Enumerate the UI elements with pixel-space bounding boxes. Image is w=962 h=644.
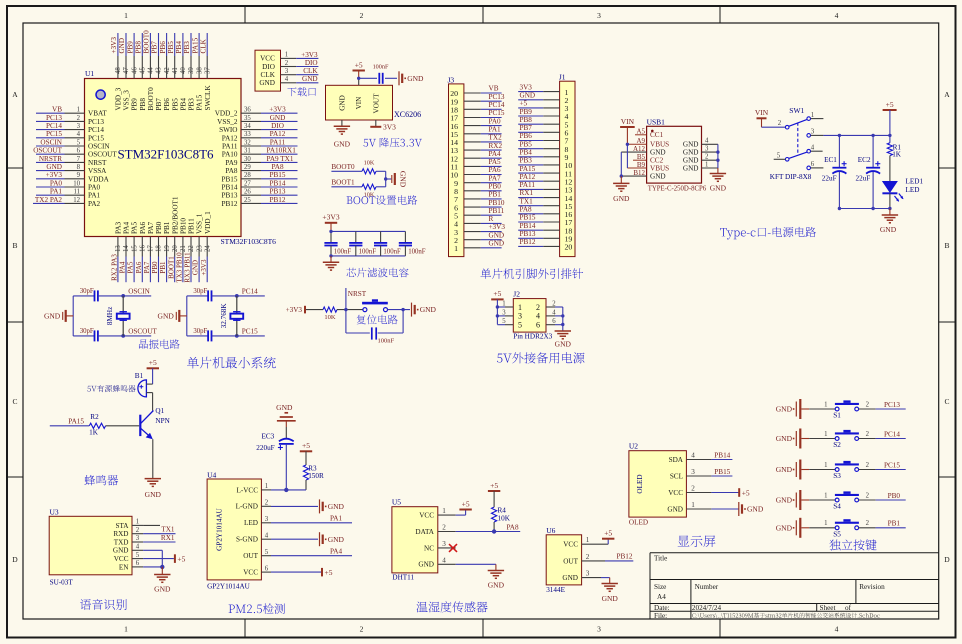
J2 pin 3 bbox=[497, 315, 505, 317]
svg-text:VCC: VCC bbox=[243, 569, 258, 577]
wire net PA11 bbox=[518, 188, 543, 190]
svg-text:25: 25 bbox=[244, 197, 251, 204]
svg-text:+5: +5 bbox=[302, 441, 310, 450]
wire net PC15 bbox=[36, 137, 65, 139]
svg-text:1: 1 bbox=[824, 431, 827, 438]
svg-text:VSS_2: VSS_2 bbox=[217, 118, 238, 126]
mcu pin 46 PB9 bbox=[133, 56, 135, 79]
wire net +3V3 bbox=[261, 112, 298, 114]
svg-text:PB5: PB5 bbox=[171, 98, 179, 111]
svg-text:46: 46 bbox=[131, 67, 138, 74]
svg-text:DIO: DIO bbox=[262, 63, 275, 71]
label 5V buck 3.3V bbox=[363, 138, 421, 148]
wire net DIO bbox=[261, 129, 298, 131]
svg-text:PA4: PA4 bbox=[123, 221, 131, 234]
wire net PA10RX1 bbox=[261, 153, 298, 155]
wire net TX2 bbox=[481, 141, 502, 143]
resistor R3 150R bbox=[303, 465, 308, 480]
svg-text:PB5: PB5 bbox=[520, 140, 533, 148]
button S4 bbox=[835, 498, 839, 502]
mcu pin 34 SWIO bbox=[241, 129, 261, 131]
svg-text:PA6: PA6 bbox=[135, 261, 143, 273]
svg-text:PB14: PB14 bbox=[270, 179, 286, 187]
svg-text:PB14: PB14 bbox=[714, 451, 730, 459]
wire node PC14 bbox=[237, 295, 265, 297]
svg-text:VCC: VCC bbox=[419, 512, 434, 520]
svg-text:VSS_3: VSS_3 bbox=[123, 90, 131, 111]
wire VCC +5 U2 bbox=[686, 492, 711, 494]
svg-text:2: 2 bbox=[866, 492, 870, 499]
svg-text:PA3: PA3 bbox=[115, 221, 123, 234]
svg-text:VDD_1: VDD_1 bbox=[204, 211, 212, 234]
svg-text:3: 3 bbox=[502, 309, 506, 316]
svg-text:16: 16 bbox=[139, 245, 146, 252]
wire net PB12 bbox=[518, 245, 543, 247]
svg-text:L-GND: L-GND bbox=[236, 503, 258, 511]
wire gnd bus J2 bbox=[562, 307, 564, 331]
svg-text:PA11: PA11 bbox=[520, 181, 536, 189]
svg-text:PB11: PB11 bbox=[188, 218, 196, 234]
svg-text:1: 1 bbox=[824, 462, 827, 469]
wire net CLK bbox=[206, 33, 208, 56]
svg-text:4: 4 bbox=[536, 312, 540, 321]
svg-text:PB4: PB4 bbox=[179, 98, 187, 111]
wire net PA12 bbox=[518, 180, 543, 182]
svg-text:GND: GND bbox=[338, 95, 346, 111]
svg-text:PB0: PB0 bbox=[155, 221, 163, 234]
wire net PB8 bbox=[141, 33, 143, 56]
wire net PA7 bbox=[149, 257, 151, 283]
svg-text:PC15: PC15 bbox=[46, 130, 62, 138]
svg-text:1: 1 bbox=[285, 52, 288, 59]
mcu pin 10 PA0 bbox=[65, 186, 85, 188]
svg-text:3: 3 bbox=[811, 129, 815, 136]
svg-text:4: 4 bbox=[265, 533, 269, 540]
svg-text:1: 1 bbox=[502, 301, 505, 308]
svg-text:U1: U1 bbox=[85, 69, 94, 78]
svg-text:12: 12 bbox=[73, 197, 80, 204]
svg-text:OLED: OLED bbox=[636, 474, 644, 493]
svg-text:19: 19 bbox=[164, 245, 171, 252]
svg-text:21: 21 bbox=[180, 245, 187, 252]
svg-text:44: 44 bbox=[148, 67, 155, 74]
svg-text:PA4: PA4 bbox=[489, 150, 502, 158]
svg-text:DIO: DIO bbox=[305, 59, 318, 67]
svg-text:PA7: PA7 bbox=[143, 261, 151, 273]
svg-text:4: 4 bbox=[835, 625, 839, 634]
wire VCC +5 bbox=[143, 558, 174, 560]
wire S1 net PC13 bbox=[859, 408, 876, 410]
svg-text:6: 6 bbox=[77, 148, 81, 155]
mcu pin 12 PA2 bbox=[65, 202, 85, 204]
mcu pin 39 PB3 bbox=[190, 56, 192, 79]
wire S2 net PC14 bbox=[859, 438, 876, 440]
svg-text:GND: GND bbox=[650, 149, 666, 157]
svg-text:100nF: 100nF bbox=[378, 337, 395, 344]
svg-text:PB14: PB14 bbox=[520, 222, 536, 230]
wire net R bbox=[481, 222, 502, 224]
svg-text:+3V3: +3V3 bbox=[269, 106, 286, 114]
svg-text:PA15: PA15 bbox=[68, 418, 84, 426]
power port +5 bbox=[353, 70, 365, 72]
wire net PC13 bbox=[36, 120, 65, 122]
svg-text:GND: GND bbox=[407, 74, 424, 83]
wire net PB11 bbox=[481, 214, 502, 216]
svg-text:PC13: PC13 bbox=[88, 118, 104, 126]
svg-text:S4: S4 bbox=[833, 503, 841, 511]
svg-text:6: 6 bbox=[536, 321, 540, 330]
wire net PB14 bbox=[518, 229, 543, 231]
svg-text:GND: GND bbox=[667, 505, 683, 513]
svg-text:PA12: PA12 bbox=[520, 173, 536, 181]
capacitor 100nF filter 3 bbox=[380, 231, 382, 243]
svg-text:+5: +5 bbox=[462, 499, 470, 508]
svg-text:GND: GND bbox=[555, 340, 572, 349]
svg-text:VCC: VCC bbox=[668, 489, 683, 497]
svg-text:3: 3 bbox=[77, 123, 81, 130]
mcu pin 6 OSCOUT bbox=[65, 153, 85, 155]
crystal 8MHz bbox=[122, 296, 124, 336]
wire VIN to CC-A9 bbox=[626, 127, 628, 144]
svg-text:4: 4 bbox=[705, 138, 709, 145]
wire L-VCC bbox=[271, 489, 306, 491]
svg-text:2: 2 bbox=[552, 301, 556, 308]
svg-text:4: 4 bbox=[835, 11, 839, 20]
svg-text:5: 5 bbox=[265, 549, 269, 556]
wire GND U6 bbox=[582, 577, 601, 579]
label BOOT config bbox=[347, 195, 418, 205]
svg-text:J2: J2 bbox=[513, 290, 520, 299]
svg-text:U6: U6 bbox=[546, 526, 555, 535]
svg-text:VB: VB bbox=[489, 85, 499, 93]
svg-text:29: 29 bbox=[244, 164, 251, 171]
wire DATA net PA8 bbox=[456, 531, 521, 533]
wire GND U2 bbox=[686, 508, 711, 510]
svg-text:4: 4 bbox=[811, 144, 815, 151]
svg-text:Title: Title bbox=[654, 555, 667, 563]
ground port crystal bbox=[180, 315, 187, 317]
svg-text:LED: LED bbox=[244, 519, 258, 527]
svg-text:4: 4 bbox=[136, 544, 140, 551]
mcu pin 20 PB2/BOOT1 bbox=[174, 237, 176, 257]
svg-text:SW1: SW1 bbox=[789, 106, 804, 115]
svg-text:2: 2 bbox=[586, 553, 590, 561]
svg-text:32: 32 bbox=[244, 139, 251, 146]
mcu pin 4 PC15 bbox=[65, 137, 85, 139]
svg-text:OSCOUT: OSCOUT bbox=[88, 151, 117, 159]
svg-text:2: 2 bbox=[442, 524, 446, 532]
svg-text:PB9: PB9 bbox=[520, 108, 533, 116]
wire S-GND bbox=[271, 538, 318, 540]
wire net PB7 bbox=[158, 33, 160, 56]
svg-text:PA15: PA15 bbox=[196, 94, 204, 110]
power port VIN usb bbox=[620, 126, 635, 128]
svg-text:41: 41 bbox=[172, 67, 179, 74]
svg-text:48: 48 bbox=[115, 67, 122, 74]
wire net GND bbox=[518, 99, 543, 101]
svg-text:GND: GND bbox=[562, 574, 578, 582]
wire net PB15 bbox=[261, 178, 298, 180]
wire net PB9 bbox=[518, 115, 543, 117]
wire net +3V3 bbox=[206, 257, 208, 283]
svg-text:3: 3 bbox=[265, 516, 269, 523]
svg-text:CC2: CC2 bbox=[650, 157, 664, 165]
wire net PA9 TX1 bbox=[261, 161, 298, 163]
svg-text:Pin HDR2X3: Pin HDR2X3 bbox=[513, 333, 552, 341]
wire net PA15 bbox=[518, 172, 543, 174]
wire net VB bbox=[36, 112, 65, 114]
svg-text:GND: GND bbox=[776, 434, 793, 443]
svg-text:VBUS: VBUS bbox=[650, 164, 669, 172]
wire button to gnd bbox=[388, 309, 411, 311]
svg-text:PB12: PB12 bbox=[270, 196, 286, 204]
svg-text:43: 43 bbox=[156, 67, 163, 74]
resistor R1 1K bbox=[887, 143, 892, 156]
svg-text:U3: U3 bbox=[50, 508, 59, 517]
svg-text:EC3: EC3 bbox=[262, 433, 275, 441]
svg-text:23: 23 bbox=[196, 245, 203, 252]
svg-text:1K: 1K bbox=[892, 150, 902, 158]
svg-text:GND: GND bbox=[747, 505, 764, 514]
mcu pin 38 PA15 bbox=[198, 56, 200, 79]
svg-text:GND: GND bbox=[489, 240, 505, 248]
mcu pin 45 PB8 bbox=[141, 56, 143, 79]
resistor R2 1K bbox=[89, 423, 105, 428]
mcu pin 17 PA7 bbox=[149, 237, 151, 257]
capacitor 30pF OSCOUT bbox=[73, 335, 94, 337]
svg-text:PA15: PA15 bbox=[520, 165, 536, 173]
ground port at 100nF bbox=[398, 71, 400, 85]
svg-text:5: 5 bbox=[518, 321, 522, 330]
svg-text:PA5: PA5 bbox=[127, 261, 135, 273]
wire reset cap loop bbox=[345, 310, 347, 333]
svg-text:PA1: PA1 bbox=[330, 515, 343, 523]
svg-text:+3V3: +3V3 bbox=[322, 213, 339, 222]
capacitor EC1 22uF bbox=[838, 134, 841, 137]
wire net PB0 bbox=[158, 257, 160, 283]
power port +3V3 filter bbox=[325, 222, 337, 224]
capacitor 30pF PC14 bbox=[187, 295, 208, 297]
svg-text:PA5: PA5 bbox=[131, 222, 139, 235]
svg-text:KFT DIP-8X8: KFT DIP-8X8 bbox=[770, 173, 812, 181]
file path bbox=[692, 613, 879, 619]
svg-text:STA: STA bbox=[115, 522, 129, 530]
svg-text:1: 1 bbox=[442, 507, 446, 515]
svg-text:10K: 10K bbox=[364, 160, 375, 167]
net label PA15 bbox=[50, 425, 90, 427]
wire net GND bbox=[481, 239, 502, 241]
svg-text:PB1: PB1 bbox=[888, 520, 901, 528]
J2 pin 2 bbox=[555, 306, 563, 308]
svg-text:GP2Y1014AU: GP2Y1014AU bbox=[207, 583, 251, 591]
svg-text:PB12: PB12 bbox=[520, 238, 536, 246]
svg-text:1: 1 bbox=[77, 107, 80, 114]
svg-text:NC: NC bbox=[424, 544, 434, 552]
svg-text:13: 13 bbox=[115, 245, 122, 252]
capacitor 100nF filter 4 bbox=[404, 231, 406, 243]
wire BOOT0 bbox=[331, 170, 362, 172]
svg-text:5: 5 bbox=[77, 139, 81, 146]
svg-text:GND: GND bbox=[420, 305, 437, 314]
svg-text:GND: GND bbox=[158, 312, 175, 321]
svg-text:GND: GND bbox=[683, 149, 699, 157]
svg-text:PB10: PB10 bbox=[179, 218, 187, 234]
svg-text:PB9: PB9 bbox=[126, 41, 134, 54]
svg-text:GND: GND bbox=[520, 92, 536, 100]
wire node OSCIN bbox=[123, 295, 151, 297]
svg-text:7: 7 bbox=[77, 156, 81, 163]
svg-text:R2: R2 bbox=[90, 413, 99, 421]
svg-text:PB14: PB14 bbox=[222, 184, 238, 192]
capacitor 100nF at regulator bbox=[378, 73, 380, 84]
svg-text:150R: 150R bbox=[308, 472, 324, 480]
svg-text:GND: GND bbox=[118, 38, 126, 54]
wire BOOT1 bbox=[331, 186, 362, 188]
J2 pin 5 bbox=[497, 324, 505, 326]
wire net PB7 bbox=[518, 131, 543, 133]
svg-text:PB0: PB0 bbox=[888, 492, 901, 500]
svg-text:47: 47 bbox=[123, 67, 130, 74]
svg-text:1: 1 bbox=[705, 161, 708, 168]
svg-text:3: 3 bbox=[442, 540, 446, 548]
svg-text:PB10: PB10 bbox=[489, 199, 505, 207]
svg-text:VSS_1: VSS_1 bbox=[196, 213, 204, 234]
svg-text:PB4: PB4 bbox=[175, 41, 183, 54]
svg-text:GP2Y1014AU: GP2Y1014AU bbox=[216, 507, 224, 551]
svg-text:100nF: 100nF bbox=[383, 248, 401, 255]
mcu pin 22 PB11 bbox=[190, 237, 192, 257]
svg-text:PB1: PB1 bbox=[489, 191, 502, 199]
svg-text:30pF: 30pF bbox=[80, 288, 94, 295]
svg-text:2: 2 bbox=[136, 527, 140, 534]
svg-text:1: 1 bbox=[124, 11, 128, 20]
capacitor 100nF reset bbox=[371, 327, 373, 339]
resistor 10K reset bbox=[323, 307, 337, 312]
svg-text:+3V3: +3V3 bbox=[286, 306, 303, 314]
svg-text:6: 6 bbox=[552, 318, 556, 325]
svg-text:GND: GND bbox=[602, 594, 619, 603]
wire net TX3 PB10 bbox=[182, 257, 184, 283]
svg-text:2: 2 bbox=[866, 520, 870, 527]
svg-text:PC14: PC14 bbox=[88, 126, 104, 134]
svg-text:+5: +5 bbox=[325, 568, 333, 577]
svg-text:22: 22 bbox=[188, 245, 195, 252]
svg-text:PA1: PA1 bbox=[88, 192, 101, 200]
svg-text:+5: +5 bbox=[149, 358, 157, 367]
mcu U1 STM32F103C8T6 body bbox=[85, 79, 242, 237]
svg-text:B1: B1 bbox=[135, 372, 144, 380]
power port 3V3 out bbox=[375, 120, 377, 127]
svg-text:File:: File: bbox=[654, 612, 667, 620]
svg-text:XC6206: XC6206 bbox=[394, 110, 421, 119]
wire VCC U6 bbox=[582, 543, 609, 545]
mcu pin 23 VSS_1 bbox=[198, 237, 200, 257]
net label NRST bbox=[345, 288, 347, 310]
label filter caps bbox=[346, 268, 408, 278]
svg-text:GND: GND bbox=[328, 502, 345, 511]
svg-text:PB1: PB1 bbox=[159, 261, 167, 274]
svg-text:2: 2 bbox=[691, 484, 695, 492]
wire net GND bbox=[481, 247, 502, 249]
mcu pin 11 PA1 bbox=[65, 194, 85, 196]
svg-text:S5: S5 bbox=[833, 531, 841, 539]
svg-text:GND: GND bbox=[154, 585, 171, 594]
wire net PA1 bbox=[36, 194, 65, 196]
svg-text:USB1: USB1 bbox=[647, 117, 666, 126]
svg-text:GND: GND bbox=[399, 171, 408, 188]
svg-text:DHT11: DHT11 bbox=[392, 574, 414, 582]
svg-text:2: 2 bbox=[705, 154, 709, 161]
svg-text:VCC: VCC bbox=[260, 55, 275, 63]
svg-text:GND: GND bbox=[683, 164, 699, 172]
svg-text:220uF: 220uF bbox=[256, 444, 274, 452]
svg-text:PB1: PB1 bbox=[163, 221, 171, 234]
svg-text:8: 8 bbox=[77, 164, 81, 171]
svg-text:PC14: PC14 bbox=[884, 430, 900, 438]
wire net PB8 bbox=[518, 123, 543, 125]
svg-text:DATA: DATA bbox=[415, 528, 434, 536]
resistor 10K BOOT0 bbox=[362, 169, 376, 174]
svg-text:+5: +5 bbox=[177, 554, 185, 563]
label crystal circuit bbox=[139, 339, 180, 349]
wire net PB13 bbox=[261, 194, 298, 196]
wire net PA5 bbox=[481, 165, 502, 167]
wire net PB5 bbox=[174, 33, 176, 56]
wire net OSCOUT bbox=[36, 153, 65, 155]
wire gnd to S5 bbox=[809, 527, 835, 529]
label independent keys bbox=[829, 539, 876, 550]
svg-text:PA7: PA7 bbox=[147, 221, 155, 234]
download port connector body bbox=[255, 50, 281, 91]
crystal 32.768K bbox=[236, 296, 238, 336]
svg-text:20: 20 bbox=[565, 243, 573, 252]
svg-text:GND: GND bbox=[776, 405, 793, 414]
mcu pin 37 SWCLK bbox=[206, 56, 208, 79]
button S1 bbox=[835, 407, 839, 411]
capacitor 30pF OSCIN bbox=[73, 295, 94, 297]
J2 pin 4 bbox=[555, 315, 563, 317]
wire net PB3 bbox=[190, 33, 192, 56]
wire net PB10 bbox=[481, 206, 502, 208]
svg-text:EC2: EC2 bbox=[858, 156, 871, 164]
svg-text:D: D bbox=[944, 555, 950, 564]
svg-text:PB13: PB13 bbox=[520, 230, 536, 238]
wire net PA11 bbox=[261, 145, 298, 147]
svg-text:15: 15 bbox=[131, 245, 138, 252]
wire net RX3 PB11 bbox=[190, 257, 192, 283]
svg-text:14: 14 bbox=[123, 245, 130, 252]
wire net +3V3 bbox=[117, 33, 119, 56]
svg-text:GND: GND bbox=[328, 535, 345, 544]
mcu pin 9 VDDA bbox=[65, 178, 85, 180]
svg-text:B: B bbox=[12, 241, 17, 250]
svg-text:2: 2 bbox=[265, 500, 269, 507]
no connect NC bbox=[449, 544, 457, 552]
switch dashed link bbox=[797, 123, 799, 154]
wire VBUS join bbox=[626, 144, 628, 168]
svg-text:OSCIN: OSCIN bbox=[40, 138, 62, 146]
wire net PA8 bbox=[518, 213, 543, 215]
svg-text:GND: GND bbox=[776, 523, 793, 532]
svg-text:RX2 PA3: RX2 PA3 bbox=[111, 254, 119, 281]
svg-text:PA0: PA0 bbox=[489, 117, 502, 125]
svg-text:3: 3 bbox=[597, 625, 601, 634]
wire net TX2 PA2 bbox=[33, 202, 65, 204]
svg-text:S3: S3 bbox=[833, 472, 841, 480]
wire net +3V3 bbox=[481, 231, 502, 233]
svg-text:STM32F103C8T6: STM32F103C8T6 bbox=[221, 237, 277, 246]
label buzzer bbox=[84, 475, 118, 486]
